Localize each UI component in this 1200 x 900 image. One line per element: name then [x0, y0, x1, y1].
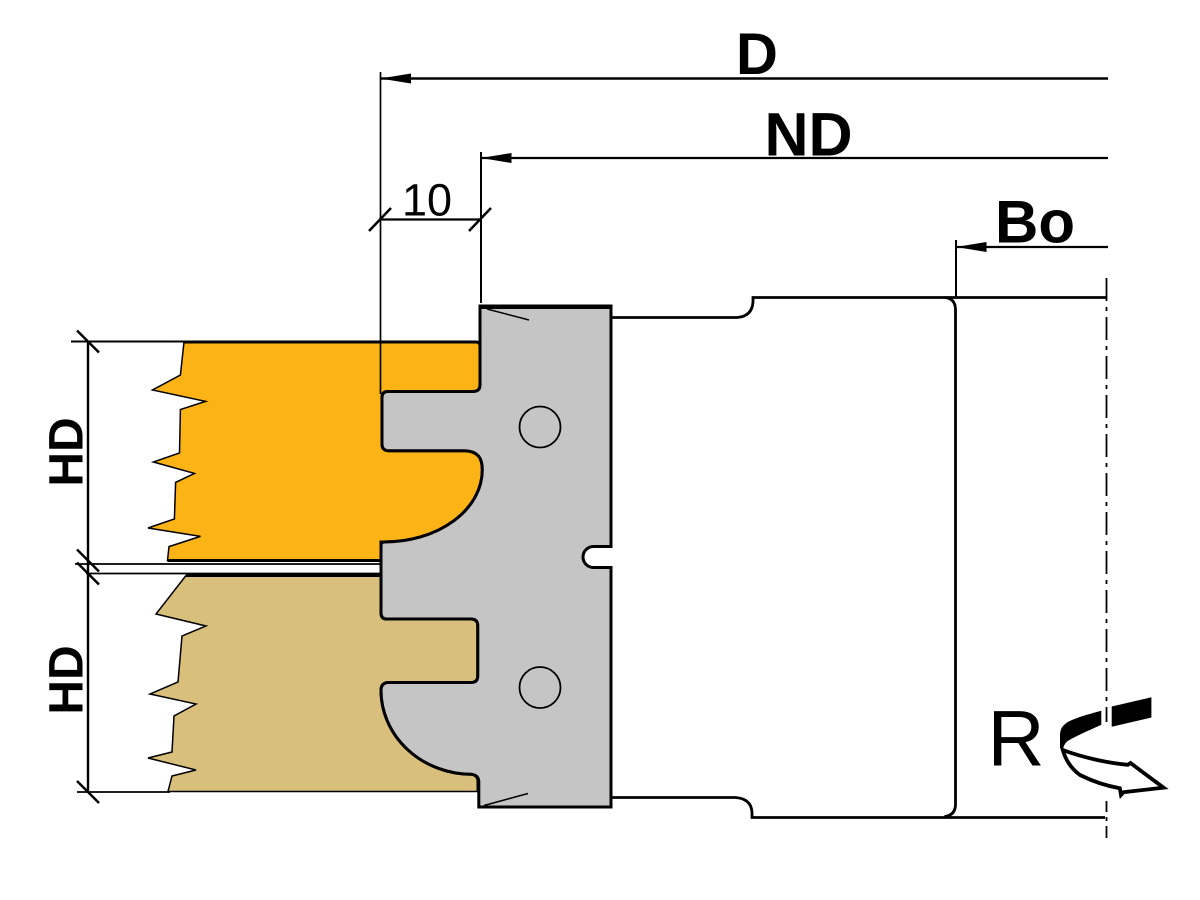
HD extension line mid2 — [86, 573, 382, 575]
svg-text:Bo: Bo — [995, 189, 1075, 256]
rotation arrow white arrow — [1063, 750, 1164, 795]
HD extension line mid1 — [75, 563, 382, 565]
svg-text:10: 10 — [402, 175, 452, 226]
HD extension line bottom — [77, 791, 170, 793]
knife bevel mark bottom — [484, 794, 528, 806]
dimension ND arrowhead — [481, 153, 512, 163]
wood piece bottom (tan profile) — [148, 576, 478, 792]
cutter body bottom outline — [611, 798, 1105, 818]
dimension Bo line — [956, 246, 1108, 248]
dimension ND line — [481, 157, 1108, 159]
dimension 10 line — [381, 218, 481, 220]
dimension D extension line — [380, 72, 382, 394]
rotation arrow black band right — [1112, 697, 1152, 726]
rotation arrow black band left — [1060, 711, 1101, 750]
dimension Bo extension line — [955, 240, 957, 298]
knife bevel mark top — [487, 309, 529, 320]
svg-text:HD: HD — [41, 645, 94, 714]
dimension D arrowhead — [381, 74, 412, 84]
centerline axis — [1106, 278, 1108, 722]
dimension ND extension line — [480, 152, 482, 303]
wood piece bottom thick profile edges — [186, 576, 478, 792]
dimension 10 tick right — [469, 208, 491, 231]
svg-text:R: R — [987, 694, 1044, 783]
dimension D line — [381, 77, 1108, 79]
dimension 10 tick left — [369, 208, 391, 231]
wood piece top thick profile edges — [168, 342, 483, 561]
wood piece top (orange profile) — [148, 342, 482, 561]
svg-text:HD: HD — [41, 417, 94, 486]
knife screw hole top — [520, 407, 561, 448]
HD tick top — [77, 331, 99, 353]
dimension Bo arrowhead — [956, 242, 987, 252]
bore wall — [945, 298, 956, 817]
HD tick mid1 — [77, 550, 99, 572]
knife plate (gray) — [381, 306, 611, 807]
cutter body top outline — [611, 298, 1107, 318]
HD tick mid2 — [77, 563, 99, 585]
knife plate top edge emphasis — [479, 305, 613, 309]
svg-text:D: D — [736, 22, 778, 87]
dimension HD line — [87, 342, 89, 794]
HD tick bottom — [77, 781, 99, 803]
knife screw hole bottom — [520, 667, 561, 708]
svg-text:ND: ND — [764, 101, 852, 169]
HD extension line top — [71, 341, 186, 343]
